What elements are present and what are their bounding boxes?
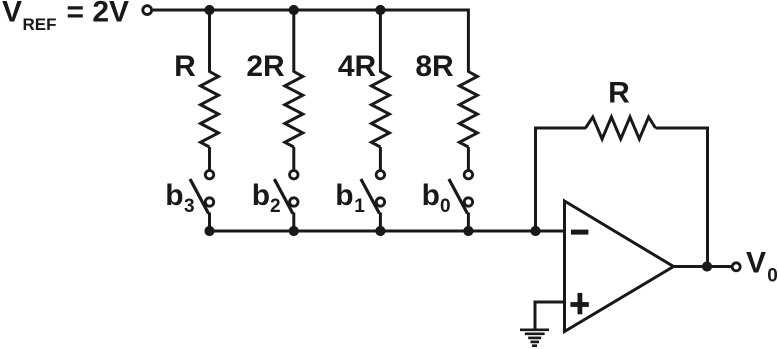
switch b0 bottom contact: [464, 198, 472, 206]
op-amp U1: [565, 201, 674, 332]
wire output: [672, 265, 731, 268]
switch b1 top contact: [376, 171, 384, 179]
node bus/b2 junction: [289, 226, 299, 236]
svg-text:0: 0: [767, 265, 778, 286]
label b3: [165, 179, 194, 217]
switch b0 top contact: [464, 171, 472, 179]
svg-text:V: V: [746, 246, 766, 279]
svg-text:3: 3: [184, 196, 195, 217]
svg-text:0: 0: [440, 196, 451, 217]
wire non-inverting input to ground: [535, 302, 565, 329]
op-amp non-inverting input plus sign: [570, 293, 588, 314]
switch b0 blade: [449, 179, 468, 214]
svg-text:b: b: [165, 179, 183, 212]
node bus/b1 junction: [375, 226, 385, 236]
node summing junction (feedback tap): [530, 226, 540, 236]
wire branch 4 switch-to-bus lead: [467, 213, 470, 232]
svg-text:2: 2: [270, 196, 281, 217]
switch b2 blade: [274, 179, 293, 214]
node C (rail / 4R branch junction): [375, 5, 385, 15]
svg-text:b: b: [252, 179, 270, 212]
svg-text:b: b: [422, 179, 440, 212]
switch b3 blade: [190, 179, 209, 214]
switch b3 bottom contact: [205, 198, 213, 206]
node bus/b3 junction: [204, 226, 214, 236]
label b1: [335, 179, 365, 217]
node A (rail / R branch junction): [204, 5, 214, 15]
svg-text:1: 1: [354, 196, 365, 217]
wire branch 4 top lead: [467, 9, 470, 73]
svg-text:REF: REF: [23, 15, 57, 34]
label b0: [422, 179, 451, 217]
wire branch 3 switch-to-bus lead: [379, 213, 382, 232]
wire branch 2 top lead: [292, 10, 295, 73]
switch b2 bottom contact: [290, 198, 298, 206]
resistor 8R (branch 4): [459, 72, 477, 148]
node B (rail / 2R branch junction): [289, 5, 299, 15]
node output/feedback junction: [702, 261, 712, 271]
svg-text:2R: 2R: [246, 50, 285, 83]
svg-text:= 2V: = 2V: [67, 0, 130, 29]
label VREF = 2V: [2, 0, 129, 34]
wire branch 2 switch-to-bus lead: [292, 213, 295, 232]
label b2: [252, 179, 281, 217]
svg-text:b: b: [335, 179, 353, 212]
resistor R feedback: [586, 117, 656, 139]
ground: [520, 330, 549, 346]
svg-text:8R: 8R: [415, 50, 454, 83]
resistor R (branch 1): [201, 72, 219, 148]
resistor 4R (branch 3): [371, 72, 389, 148]
switch b3 top contact: [205, 171, 213, 179]
wire branch 4 resistor-to-switch lead: [467, 147, 470, 170]
wire branch 1 top lead: [208, 10, 211, 73]
svg-text:R: R: [608, 77, 630, 110]
switch b2 top contact: [290, 171, 298, 179]
node bus/b0 junction: [463, 226, 473, 236]
wire branch 3 resistor-to-switch lead: [379, 147, 382, 170]
switch b1 bottom contact: [376, 198, 384, 206]
wire summing bus: [210, 230, 565, 233]
resistor 2R (branch 2): [285, 72, 303, 148]
op-amp inverting input minus sign: [571, 230, 589, 235]
label V0: [746, 246, 778, 286]
terminal VREF (open circle): [143, 6, 152, 15]
wire feedback right drop: [656, 128, 708, 267]
wire top rail: [153, 9, 468, 12]
wire branch 3 top lead: [379, 10, 382, 73]
wire branch 1 switch-to-bus lead: [208, 213, 211, 232]
wire branch 1 resistor-to-switch lead: [208, 147, 211, 170]
svg-text:4R: 4R: [338, 50, 377, 83]
svg-text:V: V: [2, 0, 22, 29]
terminal V0 (open circle): [732, 263, 740, 271]
wire branch 2 resistor-to-switch lead: [292, 147, 295, 170]
svg-text:R: R: [174, 50, 196, 83]
switch b1 blade: [361, 179, 380, 214]
wire feedback left riser: [536, 128, 587, 231]
